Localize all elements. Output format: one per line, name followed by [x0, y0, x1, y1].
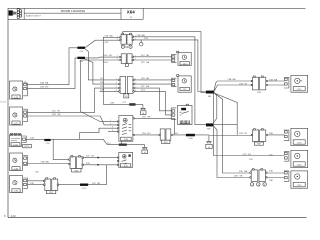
svg-text:21F SA: 21F SA	[141, 85, 149, 88]
svg-text:20D GR: 20D GR	[52, 114, 61, 116]
wire riser to R2 pin1	[103, 37, 120, 104]
title block key icon	[9, 8, 22, 18]
svg-text:20J: 20J	[100, 78, 104, 80]
wire switch S1 out to C-RB	[134, 134, 159, 136]
connector C-R2	[251, 129, 267, 146]
svg-text:20E BA: 20E BA	[105, 34, 114, 37]
svg-text:21H: 21H	[174, 133, 178, 135]
terminator circle on R2 wire	[139, 40, 143, 46]
svg-text:2: 2	[110, 123, 111, 125]
svg-text:23B: 23B	[269, 133, 273, 135]
connector R3	[120, 54, 133, 67]
svg-text:MH: MH	[208, 96, 212, 98]
wire M4 pin1 to C-L5	[28, 180, 44, 182]
motor M2 rear LH door lock	[10, 107, 23, 125]
wire switch S1 upper out to row B	[134, 118, 174, 135]
wire M2 pin2 to switch S1 pin2	[28, 116, 118, 125]
connector C-L4	[69, 156, 84, 173]
page border left	[7, 8, 9, 217]
svg-text:20F: 20F	[105, 42, 109, 44]
wire C-RB to splice C3 to ground and C-R2	[172, 134, 251, 137]
svg-text:AVANT DEBUT: AVANT DEBUT	[26, 14, 42, 17]
wire splice C2 drop to R1 pin2	[85, 59, 119, 84]
motor M6 fuel filler lock	[177, 75, 192, 93]
motor M4 front RH door lock	[10, 176, 23, 193]
inline mark on S2 wire2	[97, 164, 99, 166]
wire C-L4 to switch S2 row2	[83, 164, 117, 166]
svg-text:21C BE: 21C BE	[141, 55, 150, 57]
wire R3 pin2 riser to switch S1	[81, 60, 120, 122]
ground MAS2	[206, 136, 212, 149]
inline mark on S2 wire1	[97, 157, 99, 159]
wire M4 pin2 to C-L5	[28, 184, 44, 186]
wire C-L5 to splice C4 to riser	[59, 165, 107, 185]
svg-text:21A BA: 21A BA	[137, 34, 146, 37]
wire stub R1 pin4	[100, 90, 119, 92]
title block frame	[8, 8, 143, 19]
svg-text:20K: 20K	[100, 82, 104, 84]
wire R2 out2 to node E1	[133, 40, 206, 92]
svg-text:20N: 20N	[110, 102, 114, 104]
connector R2	[120, 33, 134, 44]
svg-text:23E GR: 23E GR	[234, 176, 243, 178]
switch assembly S3 door lock switch	[10, 133, 22, 146]
svg-text:X2: X2	[125, 45, 129, 49]
wire C-R4 to M-R4 pin1	[267, 172, 284, 174]
wire node E1 to row C	[214, 93, 285, 155]
wire C-L4 to switch S2 row1	[83, 157, 117, 159]
harness splice node E1	[206, 91, 214, 98]
svg-text:23B VE: 23B VE	[239, 133, 248, 135]
connector C-R1	[251, 76, 267, 94]
motor M1 front LH door lock	[10, 81, 23, 99]
svg-text:X64: X64	[127, 9, 136, 14]
svg-text:3-29: 3-29	[11, 214, 17, 218]
svg-text:22C VE: 22C VE	[86, 156, 95, 158]
wire riser to switch S1 pin3	[80, 128, 118, 139]
svg-text:20C VE: 20C VE	[52, 110, 61, 112]
designators under C-R4	[250, 183, 266, 187]
svg-text:20G NO: 20G NO	[104, 55, 113, 57]
svg-text:23A BA: 23A BA	[228, 78, 237, 81]
svg-text:20M: 20M	[100, 90, 104, 92]
svg-text:4: 4	[112, 130, 113, 132]
wire R2 out1 to node E1	[133, 37, 206, 125]
wire node E1 to row A lower	[214, 85, 251, 92]
wire node E2 to row D2	[213, 125, 250, 177]
connector R1	[119, 77, 134, 99]
splice C1	[77, 47, 85, 53]
svg-text:23D: 23D	[269, 171, 273, 173]
splice C6	[119, 144, 127, 146]
wire stub switch S1 pin4	[108, 131, 118, 133]
svg-text:21B: 21B	[144, 38, 148, 40]
svg-text:22D: 22D	[86, 163, 90, 165]
splice C7	[122, 102, 135, 106]
connector bracket on M5	[172, 54, 177, 62]
connector on relay K1	[171, 108, 176, 119]
wire M2 pin1 to R1 pin3	[28, 88, 119, 112]
svg-text:20B BG: 20B BG	[40, 87, 49, 89]
connector bracket on M6	[172, 78, 177, 86]
connector bracket on M4	[23, 178, 27, 188]
wire M3 to C-L4	[28, 163, 69, 165]
svg-text:1: 1	[110, 120, 111, 122]
svg-text:20H: 20H	[104, 62, 108, 64]
wire node E1 to C-R2 riser	[214, 93, 237, 135]
wire R1 to motor M6 pin1	[134, 79, 172, 81]
svg-text:21D SA: 21D SA	[141, 61, 150, 64]
svg-text:M2041: M2041	[0, 102, 7, 104]
svg-text:21K GR: 21K GR	[142, 117, 151, 119]
svg-text:22E: 22E	[30, 183, 34, 185]
svg-text:23C NO: 23C NO	[243, 154, 252, 156]
connector bracket on M3	[23, 156, 27, 166]
connector C-L5	[44, 178, 59, 194]
svg-text:21H NO: 21H NO	[142, 133, 151, 135]
wire splice C1 to R2	[85, 40, 120, 48]
motor M-R3	[291, 150, 308, 167]
designators under R2	[121, 45, 132, 49]
wire C-R2 to M-R2	[267, 134, 284, 136]
ground MAS3	[142, 145, 148, 154]
wire node E2 to riser link	[213, 124, 237, 126]
svg-text:22A: 22A	[30, 136, 34, 139]
wire splice C1 drop to R1 pin1	[85, 49, 119, 80]
wire node E1 to node E2 link	[213, 92, 217, 123]
svg-text:20A BA: 20A BA	[40, 82, 49, 85]
svg-text:23B VE: 23B VE	[239, 83, 248, 85]
harness splice node E2	[206, 123, 213, 130]
motor M-R2	[291, 128, 308, 145]
wire under switch S1 to ground MAS3	[107, 144, 145, 146]
svg-text:3: 3	[112, 127, 113, 129]
wire switch S1 bottom to splice C6	[120, 141, 122, 143]
wire switch S3 to splice C5 to C-L4	[26, 139, 107, 159]
page border bottom	[8, 217, 307, 219]
splice C3	[186, 134, 195, 140]
wire ground row to MAS1	[103, 103, 143, 105]
connector C-R4	[250, 169, 267, 182]
splice C5	[44, 139, 50, 145]
wire labels at S1 pins	[110, 120, 113, 132]
relay K1	[178, 104, 192, 124]
wire R3 to motor M5 pin1	[133, 56, 172, 58]
wire M1 pin2 to splice C2	[28, 58, 78, 89]
svg-text:21J: 21J	[107, 143, 111, 145]
wire R1 to motor M6 pin2	[134, 83, 172, 85]
connector bracket on M-R1	[284, 77, 289, 88]
connector bracket on M2	[23, 109, 27, 121]
connector bracket on M-R4	[284, 171, 289, 181]
motor M5 boot lock	[177, 51, 192, 65]
svg-text:23C: 23C	[269, 154, 273, 156]
svg-text:21E BE: 21E BE	[141, 78, 150, 80]
central door locking switch S1	[118, 116, 135, 142]
svg-text:DOOR LOCKING: DOOR LOCKING	[61, 9, 86, 13]
motor M-R1 rear lock	[291, 75, 308, 92]
motor M-R4	[291, 171, 308, 188]
wire node E1 to row D1	[214, 93, 250, 173]
wire M1 pin1 to splice C1	[28, 48, 78, 85]
ground MAS1	[140, 105, 146, 116]
door lock switch S2	[118, 152, 133, 167]
pin labels R1	[116, 78, 137, 92]
svg-text:23A BA: 23A BA	[269, 78, 278, 81]
wire node E1 to row A upper	[214, 81, 251, 91]
svg-text:MH: MH	[207, 129, 211, 131]
svg-text:23C: 23C	[249, 159, 253, 161]
wire C-R4 to M-R4 pin2	[267, 177, 284, 179]
svg-text:22F GR: 22F GR	[92, 183, 101, 185]
splice C4	[80, 184, 88, 190]
connector bracket on M1	[23, 80, 27, 96]
svg-text:23D BA: 23D BA	[239, 170, 248, 173]
wire R1 pin3 to relay K1	[134, 88, 172, 111]
wire splice C2 to R3	[85, 56, 120, 59]
svg-text:23E: 23E	[269, 180, 273, 182]
connector bracket on S3	[22, 136, 31, 148]
connector bracket on M-R2	[284, 130, 289, 141]
wire R3 to motor M5 pin2	[133, 59, 172, 61]
wire R1 pin4 to relay K1	[134, 91, 172, 115]
wire R2 top riser to node E1	[123, 32, 206, 93]
motor M3 rear RH door lock	[10, 153, 23, 171]
pin labels R2 R3	[117, 35, 136, 60]
svg-text:21G: 21G	[141, 89, 145, 91]
wire C-R1 to M-R1 upper	[267, 80, 284, 82]
splice C2	[77, 57, 85, 63]
page border top	[8, 7, 306, 9]
wire C-R1 to M-R1 lower	[267, 84, 284, 86]
svg-text:22B BA: 22B BA	[41, 161, 50, 164]
connector C-RB	[159, 129, 172, 144]
connector bracket on M-R3	[284, 152, 289, 162]
